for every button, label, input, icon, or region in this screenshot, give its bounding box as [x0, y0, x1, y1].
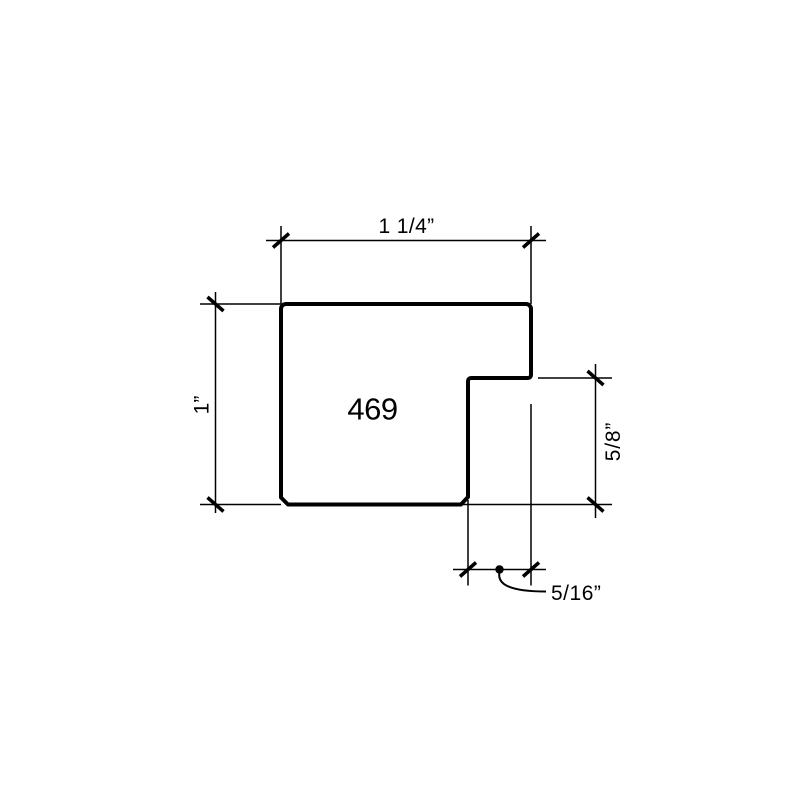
- svg-text:1”: 1”: [191, 396, 214, 415]
- bottom dimension right extension line: [530, 404, 532, 586]
- left dimension bottom extension line: [200, 504, 281, 506]
- bottom dimension left tick: [460, 563, 476, 577]
- top dimension left extension line: [280, 226, 282, 304]
- right dimension line 5/8: [595, 364, 597, 518]
- svg-text:1 1/4”: 1 1/4”: [378, 215, 434, 238]
- svg-text:5/16”: 5/16”: [551, 582, 601, 605]
- left dimension top tick: [208, 297, 224, 311]
- right dimension bottom tick: [588, 498, 604, 512]
- svg-text:5/8”: 5/8”: [602, 422, 625, 461]
- svg-text:469: 469: [347, 392, 397, 427]
- left dimension bottom tick: [208, 498, 224, 512]
- top dimension right extension line: [530, 226, 532, 304]
- bottom dimension line 5/16: [453, 569, 546, 571]
- right dimension bottom extension line: [463, 504, 612, 506]
- leader dot: [495, 565, 503, 573]
- bottom dimension left extension line: [467, 500, 469, 586]
- right dimension top tick: [588, 371, 604, 385]
- top dimension left tick: [273, 234, 289, 248]
- left dimension line 1 inch: [215, 292, 217, 513]
- top dimension line 1 1/4: [266, 240, 546, 242]
- leader curve: [499, 572, 546, 592]
- right dimension top extension line: [538, 377, 612, 379]
- bottom dimension right tick: [523, 563, 539, 577]
- left dimension top extension line: [200, 303, 281, 305]
- top dimension right tick: [523, 234, 539, 248]
- moulding profile 469 outline: [281, 304, 531, 505]
